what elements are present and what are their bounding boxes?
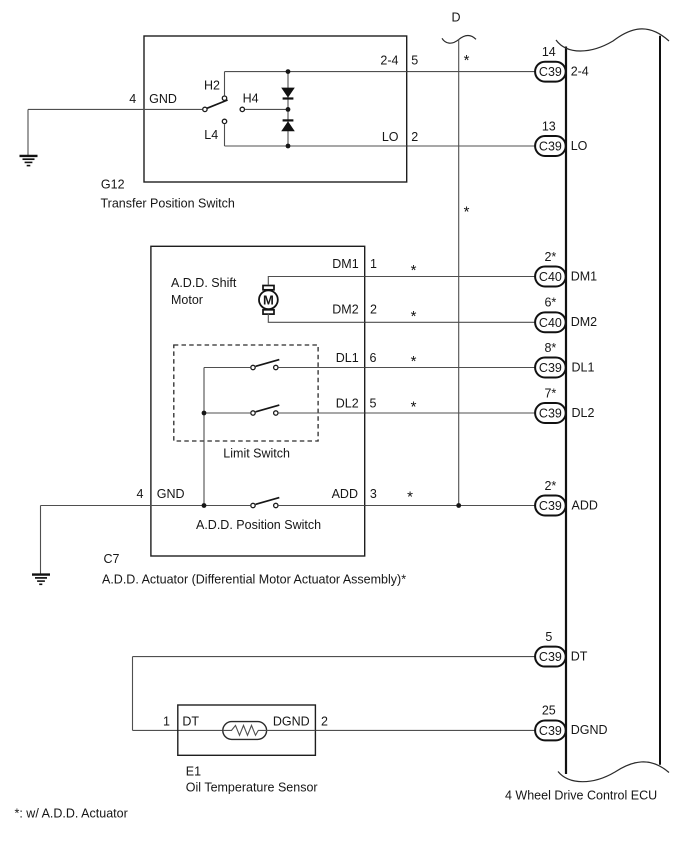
svg-text:5: 5 xyxy=(411,54,418,68)
wire: DL2 rail from branch xyxy=(204,412,250,414)
svg-text:*: * xyxy=(411,353,417,370)
svg-text:DL2: DL2 xyxy=(572,406,595,420)
svg-text:A.D.D. Position Switch: A.D.D. Position Switch xyxy=(196,518,321,532)
ground (C7) xyxy=(32,506,50,585)
diode D2 (cathode up) xyxy=(281,120,295,131)
4WD Control ECU left edge xyxy=(565,47,567,775)
svg-text:C40: C40 xyxy=(539,270,562,284)
G12 box xyxy=(144,36,407,182)
junction: diode column bottom xyxy=(286,144,291,149)
connector C39 pin 13 (LO) xyxy=(535,119,588,156)
switch H2/L4 pole contact xyxy=(203,107,207,111)
svg-text:ADD: ADD xyxy=(572,498,598,512)
svg-text:5: 5 xyxy=(545,630,552,644)
svg-text:GND: GND xyxy=(157,487,185,501)
svg-text:13: 13 xyxy=(542,119,556,133)
svg-text:ADD: ADD xyxy=(332,487,358,501)
connector C39 pin 2* (ADD) xyxy=(535,479,598,516)
svg-text:G12: G12 xyxy=(101,177,125,191)
ECU bottom break (wavy edge) xyxy=(558,762,669,782)
connector C40 pin 2* (DM1) xyxy=(535,250,597,287)
svg-text:C7: C7 xyxy=(104,552,120,566)
switch blade (pole to H2) xyxy=(207,100,227,108)
wire: motor top to DM1 rail xyxy=(268,277,364,286)
switch DL1 xyxy=(251,360,279,370)
wire: motor bottom to DM2 rail xyxy=(268,314,364,323)
svg-text:*: * xyxy=(411,308,417,325)
wire: L4 contact down to LO rail xyxy=(224,124,226,146)
connector C39 pin 14 (2-4) xyxy=(535,45,589,82)
svg-text:DM1: DM1 xyxy=(571,269,597,283)
svg-text:2-4: 2-4 xyxy=(571,64,589,78)
wire: branch vertical DL1-DL2-ADD xyxy=(203,368,205,506)
svg-text:7*: 7* xyxy=(544,386,556,400)
svg-text:4 Wheel Drive Control ECU: 4 Wheel Drive Control ECU xyxy=(505,789,657,803)
svg-text:DT: DT xyxy=(571,649,588,663)
wire: LO rail inside G12 xyxy=(225,145,407,147)
wire: DGND row (E1 to ECU) xyxy=(315,729,535,731)
svg-text:1: 1 xyxy=(370,257,377,271)
svg-text:8*: 8* xyxy=(544,341,556,355)
svg-text:C39: C39 xyxy=(539,650,562,664)
svg-text:2: 2 xyxy=(411,130,418,144)
diode D1 (cathode down) xyxy=(281,88,295,99)
svg-text:M: M xyxy=(263,293,274,308)
wire: DL1 row (C7 to ECU) xyxy=(365,367,535,369)
svg-text:LO: LO xyxy=(382,130,399,144)
wire: DL1 switch to box edge xyxy=(279,367,365,369)
wire: DM1 row (C7 to ECU) xyxy=(365,276,535,278)
wire: harness D vertical xyxy=(458,40,460,506)
wire: ground to G12 pin 4 xyxy=(28,108,202,110)
svg-text:DL1: DL1 xyxy=(572,360,595,374)
svg-text:C39: C39 xyxy=(539,724,562,738)
svg-text:2-4: 2-4 xyxy=(380,54,398,68)
wire: ADD row (C7 to ECU) xyxy=(365,505,535,507)
wire: DM2 row (C7 to ECU) xyxy=(365,321,535,323)
switch ADD (A.D.D. position switch) xyxy=(251,498,279,508)
C7 box xyxy=(151,246,365,556)
svg-text:C39: C39 xyxy=(539,407,562,421)
junction: branch at ADD rail xyxy=(202,503,207,508)
svg-text:DM2: DM2 xyxy=(332,303,358,317)
svg-text:Oil Temperature Sensor: Oil Temperature Sensor xyxy=(186,781,318,795)
connector C39 pin 5 (DT) xyxy=(535,630,588,667)
svg-text:*: * xyxy=(464,204,470,221)
svg-text:DGND: DGND xyxy=(571,723,608,737)
svg-text:*: w/ A.D.D. Actuator: *: w/ A.D.D. Actuator xyxy=(15,807,128,821)
wire: ground to C7 pin 4 and ADD switch xyxy=(41,505,251,507)
E1 box xyxy=(178,705,316,755)
svg-text:C39: C39 xyxy=(539,361,562,375)
ground (G12) xyxy=(20,109,38,165)
svg-text:DM2: DM2 xyxy=(571,315,597,329)
svg-text:C39: C39 xyxy=(539,65,562,79)
connector C39 pin 25 (DGND) xyxy=(535,704,607,741)
junction: D wire joins ADD wire xyxy=(456,503,461,508)
junction: diode column top xyxy=(286,69,291,74)
svg-text:C39: C39 xyxy=(539,140,562,154)
svg-text:DL2: DL2 xyxy=(336,396,359,410)
svg-text:2: 2 xyxy=(370,303,377,317)
wire: DL1 rail from branch xyxy=(204,367,250,369)
ECU top break (wavy edge) xyxy=(556,29,669,51)
svg-text:2: 2 xyxy=(321,715,328,729)
svg-text:DGND: DGND xyxy=(273,715,310,729)
wire: DL2 row (C7 to ECU) xyxy=(365,412,535,414)
harness D break (wavy) xyxy=(442,35,476,43)
svg-text:*: * xyxy=(411,262,417,279)
svg-text:LO: LO xyxy=(571,139,588,153)
svg-text:A.D.D. Shift: A.D.D. Shift xyxy=(171,276,237,290)
wire: 2-4 rail inside G12 xyxy=(225,71,407,73)
svg-text:DL1: DL1 xyxy=(336,351,359,365)
contact H4 xyxy=(240,107,244,111)
wire: H4 to diode column xyxy=(245,108,288,110)
svg-text:14: 14 xyxy=(542,45,556,59)
svg-text:H2: H2 xyxy=(204,79,220,93)
svg-text:*: * xyxy=(411,399,417,416)
wire: DT loop vertical xyxy=(132,657,134,731)
svg-text:Motor: Motor xyxy=(171,293,203,307)
svg-text:E1: E1 xyxy=(186,765,201,779)
wire: 2-4 row (G12 to ECU) xyxy=(407,71,535,73)
svg-text:5: 5 xyxy=(370,396,377,410)
wire: DL2 switch to box edge xyxy=(279,412,365,414)
wire: LO row (G12 to ECU) xyxy=(407,145,535,147)
svg-text:3: 3 xyxy=(370,487,377,501)
connector C39 pin 8* (DL1) xyxy=(535,341,594,378)
svg-text:DT: DT xyxy=(182,715,199,729)
svg-text:6: 6 xyxy=(370,351,377,365)
wire: diode column vertical xyxy=(287,72,289,146)
svg-text:GND: GND xyxy=(149,92,177,106)
svg-text:C40: C40 xyxy=(539,316,562,330)
switch DL2 xyxy=(251,405,279,415)
junction: branch at DL2 xyxy=(202,411,207,416)
svg-text:A.D.D. Actuator (Differential: A.D.D. Actuator (Differential Motor Actu… xyxy=(102,573,406,587)
svg-text:DM1: DM1 xyxy=(332,257,358,271)
svg-text:4: 4 xyxy=(136,487,143,501)
svg-text:Transfer Position Switch: Transfer Position Switch xyxy=(101,196,235,210)
svg-text:H4: H4 xyxy=(243,92,259,106)
svg-text:D: D xyxy=(451,11,460,25)
wire: H2 contact up to 2-4 rail xyxy=(224,72,226,96)
4WD Control ECU right edge xyxy=(659,36,661,765)
thermistor RT1 xyxy=(223,722,316,740)
limit switch dashed box xyxy=(174,345,318,441)
wire: ADD switch to box edge xyxy=(279,505,365,507)
wire: DT row (E1 loop to ECU) xyxy=(133,656,536,658)
svg-text:25: 25 xyxy=(542,704,556,718)
svg-text:2*: 2* xyxy=(544,250,556,264)
svg-text:C39: C39 xyxy=(539,499,562,513)
svg-text:6*: 6* xyxy=(544,296,556,310)
connector C40 pin 6* (DM2) xyxy=(535,296,597,333)
wire: DT loop to E1 pin1 xyxy=(133,729,223,731)
svg-text:*: * xyxy=(407,489,413,506)
svg-text:2*: 2* xyxy=(544,479,556,493)
svg-text:1: 1 xyxy=(163,715,170,729)
connector C39 pin 7* (DL2) xyxy=(535,386,594,423)
svg-text:4: 4 xyxy=(129,92,136,106)
svg-text:*: * xyxy=(464,52,470,69)
motor M1 xyxy=(259,286,278,315)
contact H2 xyxy=(222,96,226,100)
junction: diode column middle (H4) xyxy=(286,107,291,112)
svg-text:Limit Switch: Limit Switch xyxy=(223,447,290,461)
svg-text:L4: L4 xyxy=(204,128,218,142)
contact L4 xyxy=(222,119,226,123)
